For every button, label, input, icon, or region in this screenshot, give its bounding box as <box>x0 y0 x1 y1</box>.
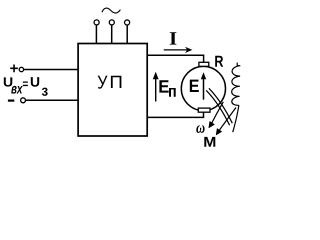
top brush <box>199 62 209 66</box>
wire terminal 2 <box>111 25 113 43</box>
current arrow I <box>164 49 188 51</box>
equals sign <box>23 82 28 87</box>
AC tilde <box>102 8 120 13</box>
wire box to motor bottom <box>147 112 203 117</box>
wire box to motor top <box>147 55 203 62</box>
AC terminal 1 <box>94 20 99 25</box>
label УП <box>98 76 122 89</box>
EMF arrow inside motor <box>203 79 205 100</box>
wire terminal 1 <box>95 25 97 43</box>
label M <box>204 137 215 147</box>
minus sign <box>8 99 14 101</box>
label I <box>170 32 177 44</box>
wire plus to box <box>24 69 78 71</box>
shaft double line <box>206 88 232 125</box>
wire terminal 3 <box>126 25 128 43</box>
torque arrow M <box>217 108 236 133</box>
omega arrow <box>210 102 223 126</box>
label omega <box>196 125 204 133</box>
motor armature circle <box>181 66 225 110</box>
plus sign <box>10 65 18 73</box>
minus terminal <box>21 98 26 103</box>
plus terminal <box>19 67 23 71</box>
AC terminal 2 <box>109 20 114 25</box>
label Eп <box>159 80 175 97</box>
AC terminal 3 <box>125 20 130 25</box>
bottom brush <box>198 108 210 112</box>
converter block UP <box>78 44 147 137</box>
label R <box>215 56 223 67</box>
label E inside motor <box>190 80 199 92</box>
Ep arrow <box>155 79 157 102</box>
field winding coil <box>232 63 241 106</box>
label U vx <box>4 77 23 93</box>
wire minus to box <box>26 99 78 101</box>
label U z <box>31 77 48 96</box>
coil bottom lead <box>233 105 239 132</box>
